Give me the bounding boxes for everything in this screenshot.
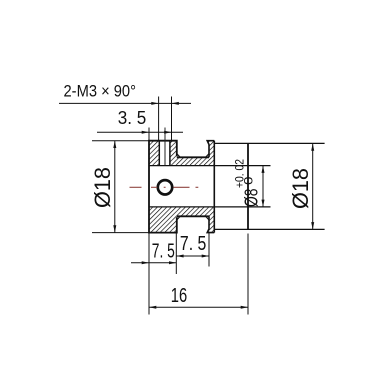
dim 16 line	[149, 306, 248, 308]
svg-text:Ø18: Ø18	[288, 168, 313, 209]
ext line left flange right edge down	[175, 233, 177, 274]
hatch left hub top-left strip	[149, 141, 159, 166]
right flange flare bottom	[206, 216, 209, 220]
groove surface bottom	[177, 215, 209, 217]
dim 2-M3x90 right arrow	[172, 102, 179, 105]
hatch left hub top-right strip	[170, 141, 177, 166]
svg-text:7. 5: 7. 5	[152, 241, 175, 263]
dim 7.5 second line	[176, 255, 209, 257]
right cylinder top edge + extension	[214, 142, 324, 144]
left dia18 ext top	[92, 140, 149, 142]
dim 7.5 second right arrow	[202, 255, 209, 258]
left dia18 dim line	[114, 141, 116, 233]
dia8 top arrow	[262, 166, 265, 173]
ext line part left face up	[148, 128, 150, 141]
ext line right flange left edge down	[208, 232, 210, 267]
dim 3.5 line	[97, 131, 183, 133]
svg-text:16: 16	[171, 284, 187, 307]
dia8 dim line	[262, 166, 264, 207]
left dia18 ext bottom	[92, 232, 149, 234]
ext line countersink left	[158, 97, 160, 141]
dim 7.5 second left arrow	[176, 255, 183, 258]
set screw hole circle	[158, 180, 172, 194]
dim 2-M3x90 left arrow	[151, 102, 158, 105]
hatch groove band top	[177, 157, 215, 165]
svg-text:Ø18: Ø18	[90, 167, 115, 208]
left dia18 top arrow	[113, 141, 116, 148]
svg-text:3. 5: 3. 5	[118, 107, 147, 128]
dim 3.5 right arrow	[164, 131, 171, 134]
hatch groove band bottom	[177, 207, 215, 216]
left dia18 bottom arrow	[113, 225, 116, 232]
M3 hole centerline	[164, 128, 166, 166]
svg-text:2-M3 × 90°: 2-M3 × 90°	[64, 82, 137, 101]
right flange outline top	[207, 141, 214, 158]
dim 7.5 first line	[131, 262, 176, 264]
M3 countersink right chamfer	[169, 141, 171, 166]
ext line right face down	[247, 234, 249, 315]
left flange flare bottom	[177, 216, 180, 220]
dia8 bottom arrow	[262, 200, 265, 207]
dim 2-M3x90 leader line	[59, 102, 191, 104]
svg-text:7. 5: 7. 5	[180, 233, 206, 255]
pulley outline left hub	[149, 141, 177, 233]
dim 16 right arrow	[241, 306, 248, 309]
right dia18 top arrow	[311, 143, 314, 150]
M3 countersink left chamfer	[158, 141, 160, 166]
left flange flare top	[177, 154, 180, 158]
groove surface top	[177, 156, 209, 158]
ext line left face down	[148, 233, 150, 315]
bore bottom line	[149, 206, 271, 208]
dim 3.5 left arrow	[142, 131, 149, 134]
right flange right edge	[213, 141, 215, 233]
hatch left hub bottom	[149, 207, 177, 233]
bore top line	[149, 165, 271, 167]
ext line countersink right	[171, 97, 173, 141]
right dia18 bottom arrow	[311, 222, 314, 229]
right flange flare top	[206, 154, 209, 158]
right dia18 dim line	[312, 143, 314, 229]
dim 16 left arrow	[149, 306, 156, 309]
dim 7.5 first left arrow	[142, 261, 149, 264]
hatch right flange bottom	[207, 216, 214, 232]
dia8 text with tolerance	[235, 159, 262, 207]
right cylinder bottom edge + extension	[214, 228, 324, 230]
right flange outline bottom	[207, 216, 214, 232]
svg-text:Ø8: Ø8	[242, 189, 262, 208]
hatch right flange top	[207, 141, 214, 158]
dim 7.5 first right arrow	[169, 261, 176, 264]
main axis centerline (red dash-dot)	[130, 186, 199, 188]
svg-text:0: 0	[244, 177, 256, 186]
right cylinder right face	[247, 143, 249, 229]
